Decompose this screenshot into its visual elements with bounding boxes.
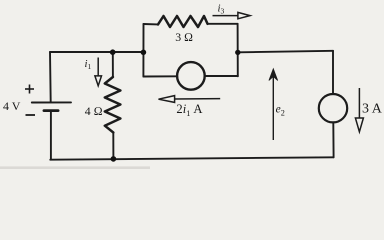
resistor R2 3ohm zigzag	[158, 16, 208, 27]
node junction dot at right riser	[235, 50, 240, 55]
svg-text:3 Ω: 3 Ω	[175, 30, 193, 44]
svg-text:4 Ω: 4 Ω	[85, 104, 103, 118]
svg-text:4 V: 4 V	[3, 99, 21, 113]
resistor R1 4ohm lead bottom	[112, 133, 114, 160]
node junction dot at 4ohm bottom	[111, 156, 117, 162]
current source I1 3A circle	[319, 94, 347, 122]
wire 2i1 branch left horizontal	[143, 75, 177, 77]
current arrow 3A (down)	[355, 88, 363, 132]
svg-text:3 A: 3 A	[362, 102, 383, 117]
resistor R1 4ohm lead top	[112, 52, 114, 77]
current arrow i3 (right)	[213, 12, 251, 18]
wire left vertical lower (battery - to bottom)	[50, 111, 52, 160]
wire right vertical upper	[332, 51, 334, 94]
wire 2i1 branch right horizontal	[205, 75, 238, 77]
wire right riser of top branch (node C vertical)	[237, 24, 239, 77]
resistor R2 3ohm lead right	[208, 23, 238, 25]
battery plus sign	[25, 85, 34, 94]
svg-text:e2: e2	[276, 103, 285, 117]
wire top-left horizontal	[50, 51, 144, 53]
wire left vertical upper (to battery +)	[49, 52, 52, 102]
resistor R2 3ohm lead left	[144, 23, 159, 25]
dependent current source U1 2i1A circle	[177, 62, 205, 90]
node junction dot at left riser	[141, 50, 147, 56]
node junction dot at 4ohm top	[110, 49, 116, 55]
wire top-right horizontal	[238, 51, 333, 53]
current arrow i1 (down)	[95, 58, 102, 86]
svg-text:i1: i1	[85, 58, 92, 71]
battery minus sign	[26, 114, 36, 116]
wire bottom horizontal	[50, 157, 333, 159]
voltage source V1 4V battery long plate	[32, 101, 71, 103]
svg-text:i3: i3	[218, 2, 225, 15]
scan smudge bottom edge	[0, 166, 150, 169]
voltage arrow e2 (up)	[269, 69, 278, 140]
wire left riser of top branch (node B vertical)	[142, 24, 144, 77]
wire right vertical lower	[332, 122, 334, 157]
voltage source V1 4V battery short plate	[44, 109, 58, 112]
svg-text:2i1 A: 2i1 A	[176, 102, 202, 118]
resistor R1 4ohm zigzag	[105, 77, 121, 133]
dependent source arrow 2i1 (left)	[159, 96, 221, 103]
